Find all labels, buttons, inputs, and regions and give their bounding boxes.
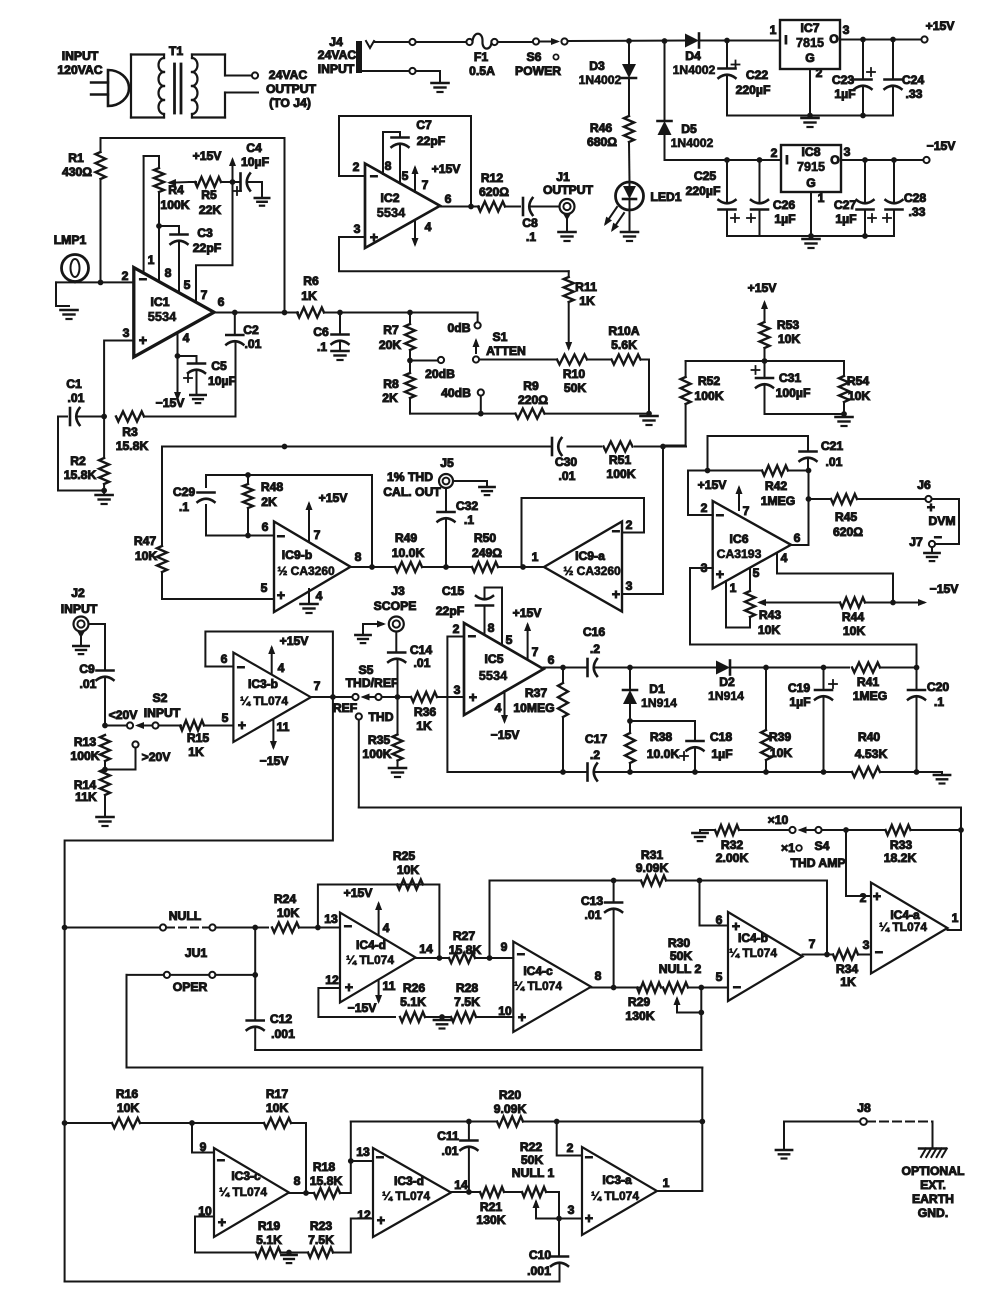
ground attenuator bbox=[641, 415, 658, 418]
text C25 220uF bbox=[686, 169, 721, 198]
capacitor C4 bbox=[233, 174, 269, 206]
svg-text:IC1: IC1 bbox=[151, 295, 170, 309]
wire IC3-c output bbox=[289, 1192, 314, 1194]
svg-text:−: − bbox=[237, 659, 245, 675]
svg-text:R39: R39 bbox=[769, 730, 792, 744]
junction C22 bbox=[724, 38, 730, 44]
svg-text:¼ TL074: ¼ TL074 bbox=[219, 1185, 267, 1199]
text R34 1K bbox=[836, 962, 859, 989]
capacitor C31 bbox=[752, 361, 845, 414]
junction IC2 out bbox=[468, 204, 474, 210]
text R45 620 bbox=[833, 510, 863, 539]
text R15 1K bbox=[187, 731, 210, 759]
text C9 .01 bbox=[79, 662, 96, 691]
text R47 10K bbox=[134, 534, 158, 563]
svg-text:−: − bbox=[344, 918, 352, 934]
text R53 10K bbox=[777, 318, 801, 346]
svg-text:1: 1 bbox=[818, 191, 825, 205]
svg-text:100K: 100K bbox=[70, 749, 99, 763]
svg-text:2: 2 bbox=[701, 501, 708, 515]
junction R13 R14 bbox=[102, 767, 108, 773]
svg-text:J6: J6 bbox=[917, 478, 931, 492]
text C7 22pF bbox=[416, 118, 445, 148]
svg-text:1: 1 bbox=[532, 550, 539, 564]
svg-text:.33: .33 bbox=[906, 87, 923, 101]
svg-text:R34: R34 bbox=[836, 962, 859, 976]
svg-text:−: − bbox=[716, 507, 724, 523]
svg-text:.1: .1 bbox=[934, 695, 944, 709]
junction R51 R52 bbox=[660, 444, 666, 450]
wire R25 box bbox=[318, 885, 440, 959]
wire IC9-a pin3 bbox=[622, 447, 663, 595]
ground rail -15V regulator bbox=[727, 235, 894, 237]
capacitor C8 bbox=[523, 198, 560, 215]
text C10 .001 bbox=[527, 1248, 551, 1278]
svg-text:5534: 5534 bbox=[148, 309, 177, 324]
text 24VAC OUTPUT (TO J4) bbox=[266, 68, 317, 110]
svg-text:.01: .01 bbox=[414, 656, 431, 670]
resistor R54 bbox=[839, 361, 849, 414]
svg-text:5.6K: 5.6K bbox=[611, 338, 637, 352]
ground R19 R23 bbox=[281, 1253, 296, 1264]
svg-text:5534: 5534 bbox=[479, 668, 508, 683]
junction IC9-a out bbox=[520, 564, 526, 570]
text R41 1MEG bbox=[853, 675, 888, 703]
op-amp IC5 5534 bbox=[464, 623, 544, 715]
svg-text:+15V: +15V bbox=[926, 19, 956, 33]
svg-text:R32: R32 bbox=[721, 838, 744, 852]
wire R42 line bbox=[688, 470, 809, 472]
junction pin3 node bbox=[556, 1216, 562, 1222]
svg-text:R45: R45 bbox=[835, 510, 858, 524]
svg-text:1N4002: 1N4002 bbox=[671, 136, 714, 150]
wire D3 to R46 bbox=[628, 78, 630, 116]
resistor R3 bbox=[116, 412, 236, 422]
wire bottom rail bbox=[65, 1281, 560, 1283]
switch S4 bbox=[789, 827, 821, 834]
junction IC3-c out bbox=[303, 1190, 309, 1196]
junction gnd R19 R23 bbox=[286, 1250, 292, 1256]
power +15V arrow IC2 bbox=[412, 162, 462, 192]
svg-text:S5: S5 bbox=[359, 663, 374, 677]
svg-text:R26: R26 bbox=[403, 981, 426, 995]
svg-text:0dB: 0dB bbox=[447, 321, 470, 335]
IC3-c labels bbox=[198, 1140, 300, 1230]
IC3-a labels bbox=[567, 1141, 670, 1226]
resistor R24 bbox=[272, 923, 340, 933]
junctions -15V input rail bbox=[724, 157, 762, 163]
svg-text:D4: D4 bbox=[685, 49, 701, 63]
svg-text:IC3-a: IC3-a bbox=[602, 1173, 632, 1187]
junctions R6 out bbox=[337, 310, 413, 316]
junctions IC1 output bbox=[232, 310, 287, 316]
svg-text:7: 7 bbox=[532, 645, 539, 659]
op-amp IC4-d TL074 bbox=[340, 913, 416, 1003]
wire IC3-d pin13 bbox=[351, 1160, 373, 1162]
wire lamp node bbox=[56, 281, 134, 284]
junctions after IC8 bbox=[862, 157, 897, 163]
svg-text:S2: S2 bbox=[153, 691, 168, 705]
ground J5 bbox=[453, 481, 495, 495]
svg-text:6: 6 bbox=[794, 531, 801, 545]
svg-text:1K: 1K bbox=[840, 975, 856, 989]
svg-text:C11: C11 bbox=[437, 1129, 459, 1143]
svg-text:<20V: <20V bbox=[109, 708, 139, 722]
regulator IC8 7915 bbox=[771, 145, 851, 192]
svg-text:+15V: +15V bbox=[432, 162, 462, 176]
svg-text:.2: .2 bbox=[590, 642, 600, 656]
svg-text:THD: THD bbox=[368, 710, 393, 724]
svg-text:22pF: 22pF bbox=[436, 604, 464, 618]
resistor R26 bbox=[400, 1012, 425, 1022]
resistor R7 bbox=[405, 313, 415, 361]
wire IC3-c pin9 bbox=[192, 1123, 214, 1153]
resistor R41 bbox=[852, 663, 880, 673]
svg-text:1: 1 bbox=[148, 253, 155, 267]
text D1 1N914 bbox=[641, 682, 677, 710]
capacitor C9 bbox=[97, 671, 114, 726]
svg-text:2: 2 bbox=[626, 518, 633, 532]
wire D5 to IC8 rail bbox=[665, 135, 782, 160]
IC4-a labels bbox=[860, 888, 959, 960]
svg-text:7915: 7915 bbox=[797, 160, 825, 174]
svg-text:−: − bbox=[875, 944, 883, 960]
text R54 10K bbox=[847, 374, 871, 403]
switch S1 common bbox=[473, 338, 480, 363]
svg-text:10K: 10K bbox=[758, 623, 781, 637]
resistor R48 bbox=[243, 475, 253, 536]
wire IC8 output bbox=[841, 159, 923, 161]
text C16 .2 bbox=[583, 625, 606, 656]
capacitor C27 bbox=[857, 160, 877, 236]
power +15V arrow IC6 bbox=[736, 485, 743, 510]
IC1 pin8 lead bbox=[158, 226, 160, 282]
svg-text:−: − bbox=[376, 1149, 384, 1165]
junction pin13 bbox=[348, 1158, 354, 1164]
svg-text:.1: .1 bbox=[179, 500, 189, 514]
svg-text:40dB: 40dB bbox=[441, 386, 471, 400]
junction R5 C4 bbox=[230, 179, 236, 185]
op-amp IC3-b TL074 bbox=[233, 653, 310, 743]
svg-text:8: 8 bbox=[294, 1174, 301, 1188]
svg-text:620Ω: 620Ω bbox=[833, 525, 863, 539]
wire IC9-b pin6 bbox=[206, 535, 274, 537]
text J1 OUTPUT bbox=[543, 170, 594, 197]
text R4 100K bbox=[160, 183, 189, 212]
jack J3 bbox=[389, 617, 404, 632]
svg-text:C7: C7 bbox=[416, 118, 432, 132]
text D3 1N4002 bbox=[579, 59, 622, 87]
resistor R8 bbox=[405, 361, 415, 414]
wire IC4-a pin2 bbox=[846, 830, 871, 896]
capacitor C26 bbox=[747, 160, 768, 236]
svg-text:IC3-b: IC3-b bbox=[248, 677, 278, 691]
wire bias rail bbox=[686, 360, 844, 362]
svg-text:0.5A: 0.5A bbox=[469, 64, 495, 78]
svg-text:CA3193: CA3193 bbox=[717, 547, 762, 561]
wire S5 to R36 bbox=[382, 696, 412, 698]
resistor R25 bbox=[397, 880, 423, 890]
jack J2 bbox=[74, 617, 89, 639]
pot R43 bbox=[726, 568, 755, 628]
capacitor C18 bbox=[630, 721, 704, 772]
text OPTIONAL EXT EARTH GND bbox=[902, 1164, 966, 1220]
wire IC4-a output bbox=[948, 830, 962, 930]
junction gnd rail 2 bbox=[808, 233, 868, 239]
svg-text:680Ω: 680Ω bbox=[587, 135, 617, 149]
IC1 pin7 lead bbox=[196, 182, 233, 302]
svg-text:C3: C3 bbox=[197, 226, 213, 240]
svg-text:NULL: NULL bbox=[169, 909, 202, 923]
junction IC3-b out bbox=[330, 694, 336, 700]
resistor R44 bbox=[840, 598, 893, 608]
svg-text:−: − bbox=[517, 946, 525, 962]
svg-text:R53: R53 bbox=[777, 318, 800, 332]
svg-text:R28: R28 bbox=[456, 981, 479, 995]
text S5 THD/REF REF bbox=[333, 663, 399, 715]
text J2 INPUT bbox=[61, 586, 98, 616]
wire REF return rail bbox=[65, 697, 333, 1282]
svg-text:+: + bbox=[716, 566, 724, 582]
wire R50 to IC9-a bbox=[498, 566, 544, 568]
resistor R50 bbox=[472, 562, 498, 572]
svg-text:1MEG: 1MEG bbox=[761, 494, 796, 508]
svg-text:R1: R1 bbox=[68, 151, 84, 165]
svg-text:13: 13 bbox=[324, 912, 338, 926]
resistor R15 bbox=[159, 721, 234, 731]
svg-text:100µF: 100µF bbox=[776, 386, 811, 400]
junction gnd R26 R28 bbox=[439, 1014, 445, 1020]
terminal x1 bbox=[796, 845, 802, 851]
wire pin5 node down bbox=[700, 988, 702, 1051]
svg-text:1: 1 bbox=[663, 1176, 670, 1190]
svg-text:C31: C31 bbox=[779, 371, 802, 385]
svg-text:¼ TL074: ¼ TL074 bbox=[591, 1189, 639, 1203]
ground R26 R28 bbox=[434, 1017, 450, 1029]
junction C32 bbox=[443, 564, 449, 570]
svg-text:R44: R44 bbox=[842, 610, 865, 624]
op-amp IC4-b TL074 bbox=[728, 912, 803, 1001]
svg-text:THD AMP: THD AMP bbox=[790, 856, 845, 870]
svg-text:8: 8 bbox=[355, 550, 362, 564]
junction lamp node bbox=[98, 280, 104, 286]
op-amp IC3-a TL074 bbox=[582, 1147, 657, 1235]
svg-text:×10: ×10 bbox=[768, 813, 789, 827]
IC2 pin labels 8 5 7 4 bbox=[385, 159, 432, 234]
svg-text:1MEG: 1MEG bbox=[853, 689, 888, 703]
text R1 430 bbox=[62, 151, 92, 179]
svg-text:R8: R8 bbox=[383, 377, 399, 391]
resistor R40 bbox=[852, 767, 880, 777]
LED LED1 bbox=[604, 182, 644, 232]
wire IC6 pin4 bbox=[777, 553, 893, 603]
svg-text:R50: R50 bbox=[474, 531, 497, 545]
text C8 .1 bbox=[522, 216, 538, 244]
svg-text:2.00K: 2.00K bbox=[716, 851, 749, 865]
IC5 labels bbox=[453, 621, 555, 715]
svg-text:R2: R2 bbox=[70, 454, 86, 468]
svg-text:.01: .01 bbox=[245, 337, 262, 351]
resistor R12 bbox=[478, 202, 520, 212]
resistor R5 bbox=[195, 177, 240, 187]
svg-text:R27: R27 bbox=[453, 929, 476, 943]
power -15V arrow IC3-b bbox=[260, 720, 290, 768]
resistor R37 bbox=[558, 668, 568, 773]
text J4 24VAC INPUT bbox=[318, 35, 357, 76]
capacitor C1 bbox=[58, 408, 104, 425]
svg-text:+15V: +15V bbox=[193, 149, 223, 163]
wire R49 to R50 bbox=[422, 566, 472, 568]
svg-text:G: G bbox=[805, 51, 814, 65]
svg-text:EARTH: EARTH bbox=[912, 1192, 954, 1206]
op-amp IC2 5534 bbox=[365, 164, 440, 249]
text C15 22pF bbox=[436, 584, 465, 618]
power +15V arrow R53 bbox=[748, 281, 778, 322]
junction C31 R54 bbox=[841, 411, 847, 417]
junction C14 R35 bbox=[395, 694, 401, 700]
svg-text:R18: R18 bbox=[313, 1160, 336, 1174]
junction pin9 c13 riser bbox=[487, 955, 493, 961]
wire J8 dashed bbox=[867, 1121, 933, 1123]
svg-text:.1: .1 bbox=[526, 230, 536, 244]
svg-text:6: 6 bbox=[548, 653, 555, 667]
svg-text:6: 6 bbox=[218, 295, 225, 309]
svg-text:IC2: IC2 bbox=[381, 191, 400, 205]
text R24 10K bbox=[274, 892, 300, 920]
svg-text:1µF: 1µF bbox=[774, 212, 795, 226]
junction -15V node bbox=[890, 600, 896, 606]
svg-text:×1: ×1 bbox=[781, 841, 795, 855]
svg-text:LMP1: LMP1 bbox=[54, 233, 87, 247]
svg-text:C17: C17 bbox=[585, 732, 608, 746]
text LED1 bbox=[650, 190, 681, 204]
text C21 .01 bbox=[821, 439, 844, 469]
text R28 7.5K bbox=[454, 981, 480, 1009]
resistor R6 bbox=[297, 308, 324, 318]
resistor R31 bbox=[641, 876, 666, 886]
svg-text:1K: 1K bbox=[301, 289, 317, 303]
svg-text:REF: REF bbox=[333, 701, 357, 715]
IC1 labels bbox=[122, 269, 178, 348]
svg-text:.01: .01 bbox=[559, 469, 576, 483]
svg-text:R17: R17 bbox=[266, 1087, 289, 1101]
IC2 labels bbox=[353, 160, 452, 245]
svg-text:+: + bbox=[612, 586, 620, 602]
svg-text:½ CA3260: ½ CA3260 bbox=[277, 564, 335, 578]
wire OPER to C12 node bbox=[254, 928, 256, 1020]
svg-text:2K: 2K bbox=[261, 495, 277, 509]
svg-text:POWER: POWER bbox=[515, 64, 561, 78]
svg-text:5: 5 bbox=[261, 581, 268, 595]
text 40dB bbox=[441, 386, 471, 400]
svg-text:OPER: OPER bbox=[173, 980, 208, 994]
svg-text:O: O bbox=[830, 153, 839, 167]
svg-text:GND.: GND. bbox=[918, 1206, 948, 1220]
text C26 1uF bbox=[773, 198, 796, 226]
svg-text:C21: C21 bbox=[821, 439, 844, 453]
svg-text:C32: C32 bbox=[456, 499, 479, 513]
svg-text:2K: 2K bbox=[382, 391, 398, 405]
text C24 .33 bbox=[902, 73, 925, 101]
wire IC3-d output bbox=[451, 1191, 480, 1193]
junction R4 bottom pin8 bbox=[156, 223, 162, 229]
junction R7 R8 bbox=[407, 358, 413, 364]
junction D1 bbox=[627, 665, 633, 671]
svg-text:1: 1 bbox=[770, 23, 777, 37]
wire IC9-b output bbox=[351, 566, 396, 568]
svg-text:+15V: +15V bbox=[319, 491, 349, 505]
svg-text:C29: C29 bbox=[173, 485, 196, 499]
text C17 .2 bbox=[585, 732, 608, 762]
svg-text:11: 11 bbox=[383, 979, 396, 993]
svg-text:.001: .001 bbox=[271, 1027, 295, 1041]
text C31 100uF bbox=[776, 371, 811, 400]
R22 wiper arrow bbox=[533, 1199, 560, 1219]
svg-text:R10A: R10A bbox=[608, 324, 639, 338]
wire C12 to R30 wiper line bbox=[255, 1049, 701, 1051]
svg-text:IC6: IC6 bbox=[730, 532, 749, 546]
svg-text:INPUT: INPUT bbox=[144, 706, 181, 720]
svg-text:620Ω: 620Ω bbox=[479, 185, 509, 199]
wire IC9-b feedback box bbox=[205, 505, 207, 536]
power +15V arrow IC5 bbox=[513, 606, 543, 659]
resistor R46 bbox=[624, 116, 634, 142]
wire IC3-b feedback box bbox=[205, 632, 333, 698]
junction 40dB bbox=[478, 411, 484, 417]
capacitor C21 bbox=[800, 452, 817, 471]
svg-text:R23: R23 bbox=[310, 1219, 333, 1233]
svg-text:24VAC: 24VAC bbox=[269, 68, 308, 82]
text OPER bbox=[173, 980, 208, 994]
svg-text:8: 8 bbox=[595, 969, 602, 983]
wire IC2 feedback box bbox=[339, 116, 471, 207]
capacitor C5 bbox=[178, 356, 206, 403]
svg-text:D2: D2 bbox=[719, 675, 735, 689]
svg-text:3: 3 bbox=[843, 23, 850, 37]
svg-text:10µF: 10µF bbox=[241, 155, 269, 169]
svg-text:C22: C22 bbox=[746, 68, 769, 82]
svg-text:5.1K: 5.1K bbox=[256, 1233, 282, 1247]
IC8 pin 1 lead bbox=[811, 191, 825, 236]
IC9-b labels bbox=[261, 520, 362, 603]
svg-text:C2: C2 bbox=[243, 323, 259, 337]
power +15V arrow IC4-d bbox=[344, 886, 383, 934]
text R22 50K NULL1 bbox=[512, 1140, 555, 1180]
text R49 10.0K bbox=[392, 531, 425, 560]
text +15V IC6 bbox=[698, 478, 728, 492]
svg-text:JU1: JU1 bbox=[185, 946, 208, 960]
text C23 1uF bbox=[832, 73, 856, 101]
wire IC2 output bbox=[440, 206, 479, 208]
jumper JU1 OPER contacts bbox=[127, 972, 256, 978]
ground under LED1 bbox=[621, 210, 638, 241]
wire R10A down bbox=[641, 360, 650, 414]
text R7 20K bbox=[379, 323, 402, 352]
capacitor C17 bbox=[586, 764, 589, 781]
jack J1 bbox=[560, 199, 575, 221]
svg-text:5.1K: 5.1K bbox=[400, 995, 426, 1009]
text J8 bbox=[857, 1101, 871, 1115]
junction S2 node bbox=[102, 723, 108, 729]
svg-text:14: 14 bbox=[419, 942, 433, 956]
wire IC3-a output bbox=[657, 1190, 702, 1192]
IC4-b labels bbox=[716, 913, 816, 995]
junction R2 bottom bbox=[101, 488, 107, 494]
svg-text:2: 2 bbox=[816, 66, 823, 80]
junction R42 bbox=[705, 468, 812, 474]
wire IC3-a pin3 bbox=[559, 1218, 582, 1220]
svg-text:C20: C20 bbox=[927, 680, 950, 694]
